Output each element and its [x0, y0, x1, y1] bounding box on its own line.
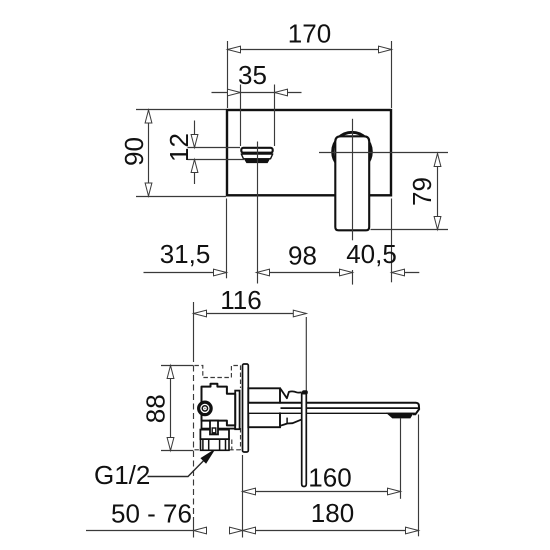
svg-text:90: 90 — [119, 137, 149, 166]
dim 40,5 arrow — [392, 269, 405, 276]
valve body flange bar — [235, 391, 239, 430]
valve body mid section — [200, 430, 229, 440]
valve bottom tab — [210, 421, 218, 435]
G1/2 leader arrow — [201, 450, 214, 463]
dim 180 extension line right — [418, 415, 420, 537]
svg-text:G1/2: G1/2 — [94, 460, 150, 490]
extension line plate left bottom — [226, 199, 228, 279]
dim 160 arrows — [243, 488, 256, 495]
dim 31,5 line — [144, 272, 227, 274]
valve body lower wide section — [202, 421, 236, 429]
dim 180 line — [243, 530, 419, 532]
spout side top line — [248, 403, 419, 415]
handle base escutcheon side view — [248, 388, 280, 427]
svg-text:12: 12 — [164, 133, 194, 162]
spout outlet front: body trapezoid — [241, 154, 272, 159]
handle lever front view — [335, 136, 369, 230]
lever side view — [302, 394, 307, 487]
dim 35 line — [212, 92, 302, 94]
spout outlet front: top bar — [241, 148, 272, 153]
spout aerator side dark band — [387, 413, 413, 418]
dim 79 arrows — [434, 154, 441, 167]
dim 12 line — [194, 121, 196, 148]
dim 35 arrows — [228, 89, 241, 96]
dim 170 arrows — [228, 46, 241, 53]
dim 40,5 line — [392, 272, 420, 274]
handle neck top profile — [281, 389, 302, 399]
dim 12 arrows — [191, 135, 198, 148]
dim 116 extension line left — [193, 302, 195, 356]
dim 170 line — [228, 49, 392, 51]
svg-text:116: 116 — [220, 285, 261, 315]
svg-text:160: 160 — [308, 463, 351, 493]
dim 90 extension lines — [136, 109, 226, 111]
centerline spout vertical — [257, 142, 259, 284]
svg-text:98: 98 — [288, 241, 317, 271]
dim 88 line — [170, 366, 172, 451]
finished wall dashed line — [193, 356, 195, 517]
dim 160 line — [243, 491, 401, 493]
svg-text:88: 88 — [141, 394, 171, 423]
dim 31,5 arrow — [214, 269, 227, 276]
dim 12 extension lines — [188, 147, 241, 149]
lever pivot cap — [302, 390, 308, 394]
svg-text:180: 180 — [311, 498, 354, 528]
dim 160 extension line — [400, 418, 402, 499]
rough-in box dashed outline top — [194, 366, 240, 378]
dim 50-76 arrows — [194, 527, 207, 534]
centerline handle horizontal — [319, 152, 448, 154]
centerline handle vertical — [352, 119, 354, 241]
svg-text:50 - 76: 50 - 76 — [111, 499, 192, 529]
handle neck notch line — [286, 418, 288, 424]
dim 170 extension lines — [227, 41, 229, 108]
dim 79 line — [437, 154, 439, 230]
valve port circle — [199, 402, 212, 415]
svg-text:35: 35 — [238, 60, 267, 90]
G1/2 leader line — [148, 460, 205, 476]
dim 180 arrows — [243, 527, 256, 534]
dim 98 line — [257, 272, 353, 274]
dim 35 extension lines — [240, 85, 242, 147]
handle neck bottom profile — [281, 419, 302, 425]
spout aerator dark band front — [244, 159, 269, 163]
dim 90 line — [148, 110, 150, 196]
dim 88 extension lines — [161, 365, 193, 367]
rough-in box dashed outline bottom — [194, 449, 200, 451]
dim 116 line — [194, 313, 307, 315]
dim 180 extension line left — [242, 455, 244, 538]
svg-text:40,5: 40,5 — [346, 239, 397, 269]
spout side middle line — [281, 407, 419, 409]
dim 79 extension line bottom — [371, 229, 449, 231]
valve threaded inlet G1/2 — [201, 439, 230, 450]
wall plate front view — [227, 110, 391, 195]
dim 88 arrows — [167, 366, 174, 379]
svg-text:31,5: 31,5 — [160, 239, 211, 269]
dim 98 arrows — [257, 269, 270, 276]
spout side bottom line — [248, 412, 415, 414]
spout side white fill — [249, 404, 417, 413]
dim 116 extension line right — [305, 317, 307, 391]
svg-text:79: 79 — [407, 177, 437, 206]
dim 90 arrows — [145, 110, 152, 123]
valve main body — [202, 384, 236, 426]
dim 116 arrows — [194, 310, 207, 317]
wall plate side view — [243, 364, 249, 452]
svg-text:170: 170 — [288, 19, 331, 49]
dim 50-76 line — [86, 530, 194, 532]
extension line plate right bottom — [391, 199, 393, 283]
handle rosette circle — [333, 132, 372, 171]
